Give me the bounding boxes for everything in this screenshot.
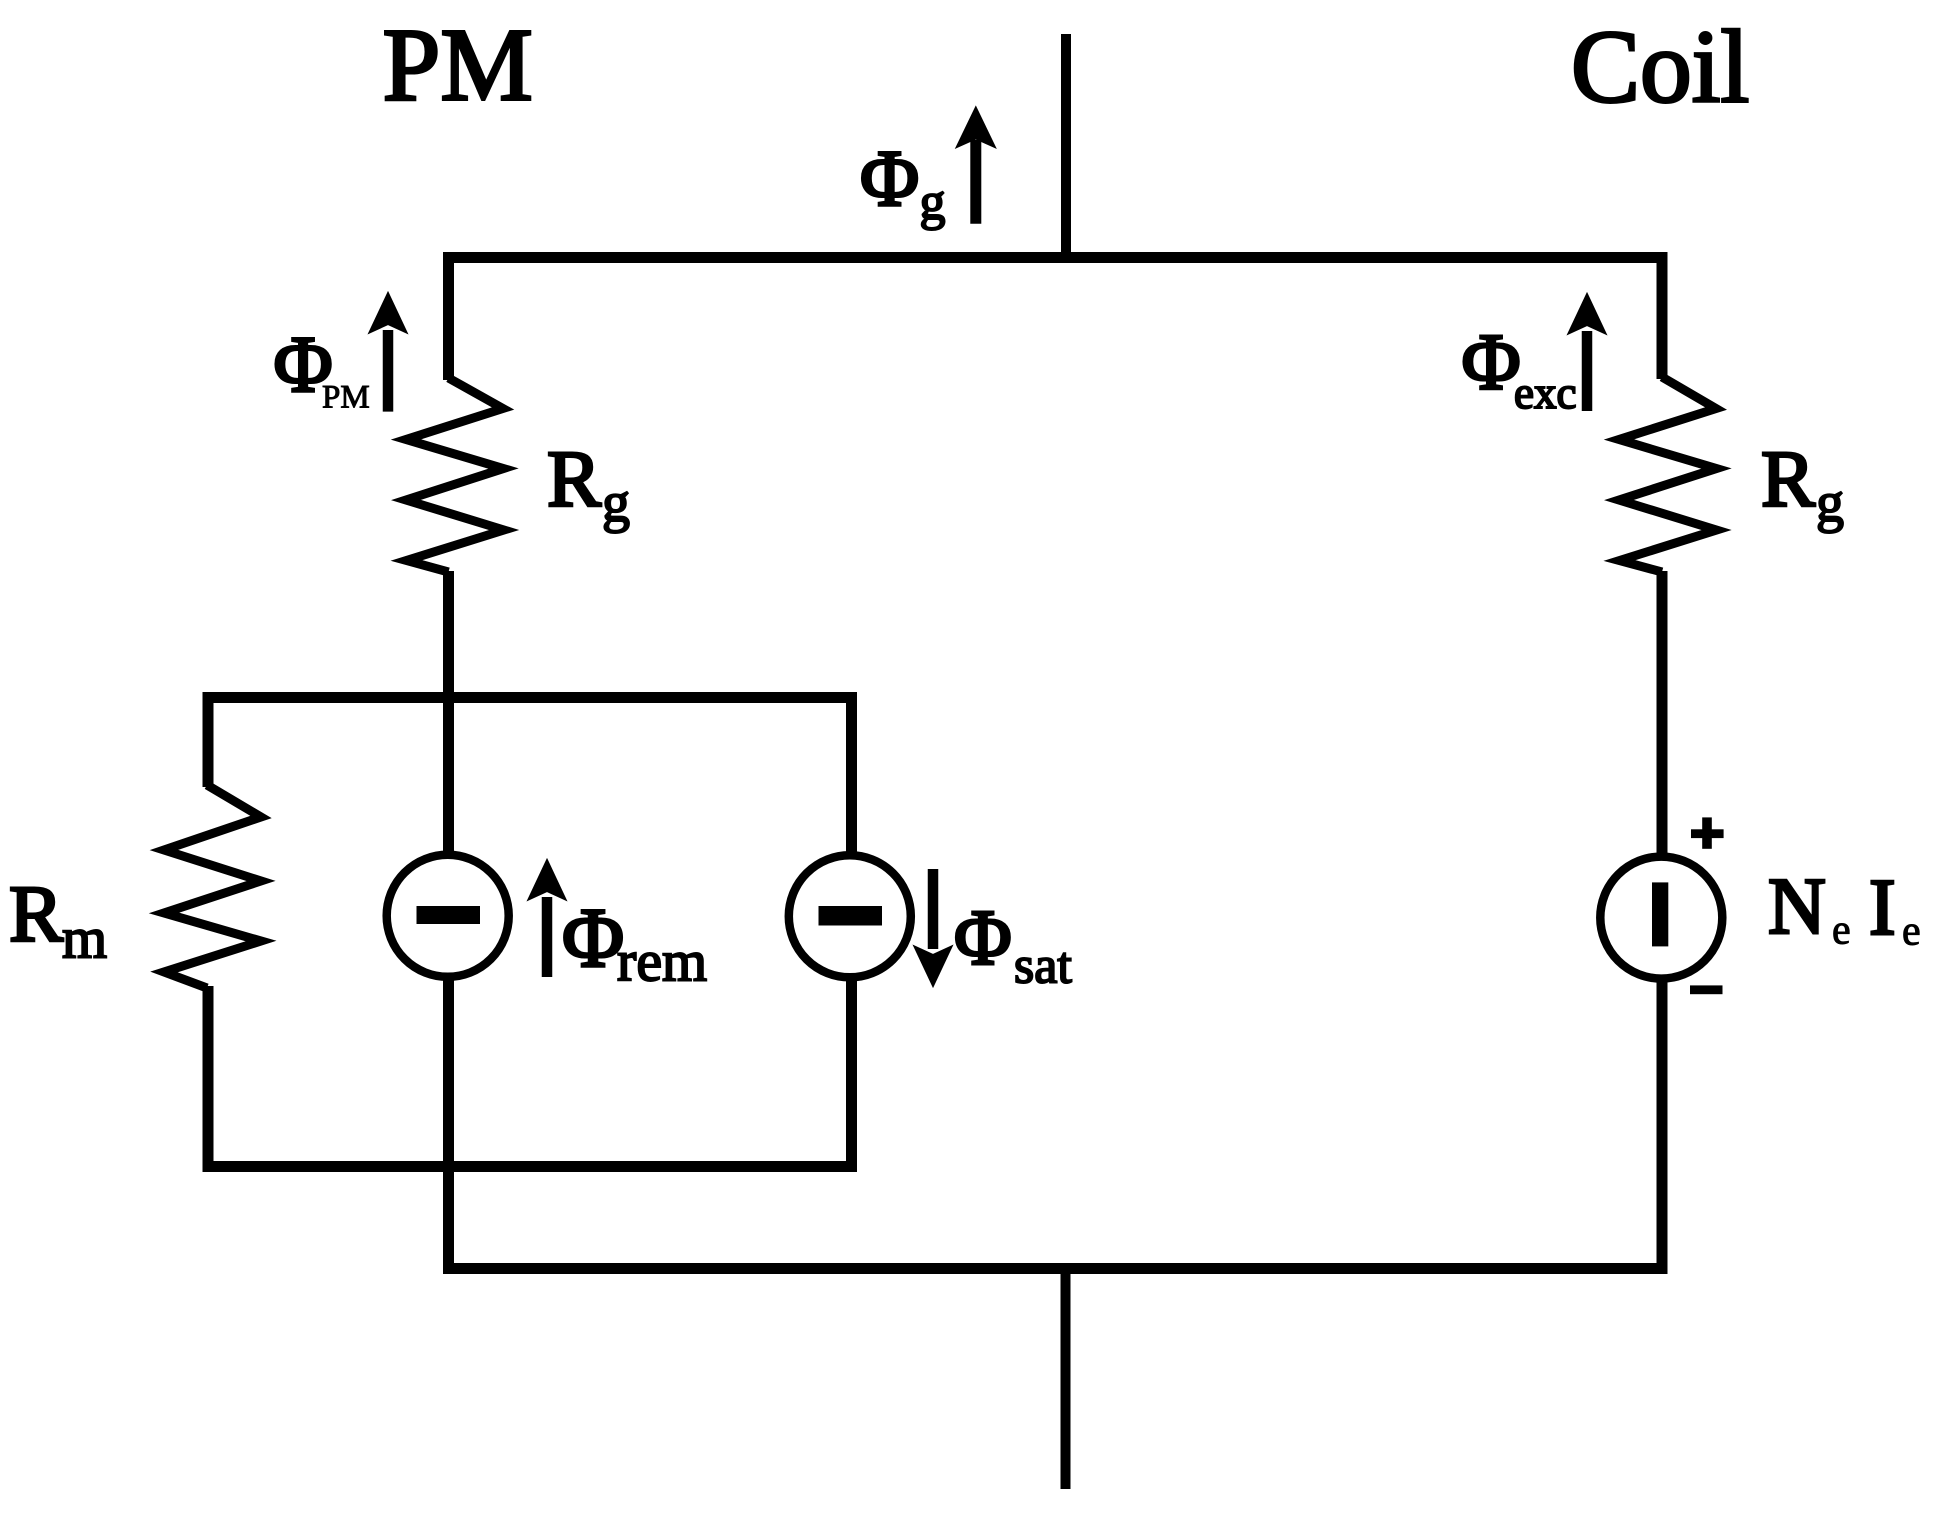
wire bottom horizontal xyxy=(443,1263,1667,1274)
arrow Phi_exc xyxy=(1582,331,1593,411)
svg-text:Φ: Φ xyxy=(860,133,919,223)
box top wire xyxy=(203,692,858,703)
svg-text:I: I xyxy=(1869,864,1896,952)
box right wire upper xyxy=(846,692,857,857)
resistor Rg left zigzag xyxy=(406,378,504,572)
svg-text:Φ: Φ xyxy=(954,895,1012,982)
svg-text:N: N xyxy=(1768,863,1826,951)
plus sign of Ne Ie source xyxy=(1691,829,1724,838)
flux source circle Phi_rem xyxy=(387,855,509,977)
bar inside Ne Ie source xyxy=(1652,882,1668,946)
svg-text:sat: sat xyxy=(1014,938,1072,995)
svg-text:e: e xyxy=(1832,908,1851,954)
svg-text:g: g xyxy=(602,472,630,534)
resistor Rm zigzag xyxy=(164,785,261,988)
box right wire lower xyxy=(846,978,857,1172)
arrow Phi_PM xyxy=(383,330,394,412)
box bottom wire xyxy=(203,1161,858,1172)
node top stub xyxy=(1061,34,1071,263)
box left wire lower xyxy=(203,986,214,1172)
svg-text:PM: PM xyxy=(383,8,533,123)
minus bar inside Phi_sat source xyxy=(819,906,883,926)
minus bar inside Phi_rem source xyxy=(417,906,481,924)
wire left vertical upper xyxy=(443,252,454,380)
wire right vertical upper xyxy=(1657,252,1668,379)
svg-text:e: e xyxy=(1902,909,1921,955)
wire left vertical lower xyxy=(443,976,454,1274)
wire right vertical middle xyxy=(1657,571,1668,857)
arrow Phi_rem xyxy=(542,897,553,977)
wire top horizontal xyxy=(443,252,1667,263)
svg-text:PM: PM xyxy=(322,380,370,416)
svg-text:rem: rem xyxy=(617,929,707,994)
svg-text:m: m xyxy=(62,906,107,971)
arrow Phi_sat (down) xyxy=(928,869,939,949)
wire left vertical middle xyxy=(443,571,454,856)
svg-text:R: R xyxy=(547,434,601,524)
flux source circle Phi_sat xyxy=(789,855,911,977)
arrow Phi_g xyxy=(970,140,981,224)
svg-text:Φ: Φ xyxy=(562,891,624,985)
node bottom stub xyxy=(1061,1268,1071,1489)
box left wire upper xyxy=(203,692,214,787)
svg-text:g: g xyxy=(1816,472,1844,534)
svg-text:Coil: Coil xyxy=(1571,11,1749,125)
svg-text:exc: exc xyxy=(1514,368,1576,418)
svg-text:R: R xyxy=(9,869,63,959)
svg-text:R: R xyxy=(1761,434,1815,524)
resistor Rg right zigzag xyxy=(1619,377,1717,572)
wire right vertical lower xyxy=(1657,978,1668,1274)
svg-text:g: g xyxy=(920,174,946,231)
MMF source circle Ne Ie xyxy=(1600,857,1722,979)
minus sign of Ne Ie source xyxy=(1690,985,1723,994)
svg-text:Φ: Φ xyxy=(1462,317,1521,407)
